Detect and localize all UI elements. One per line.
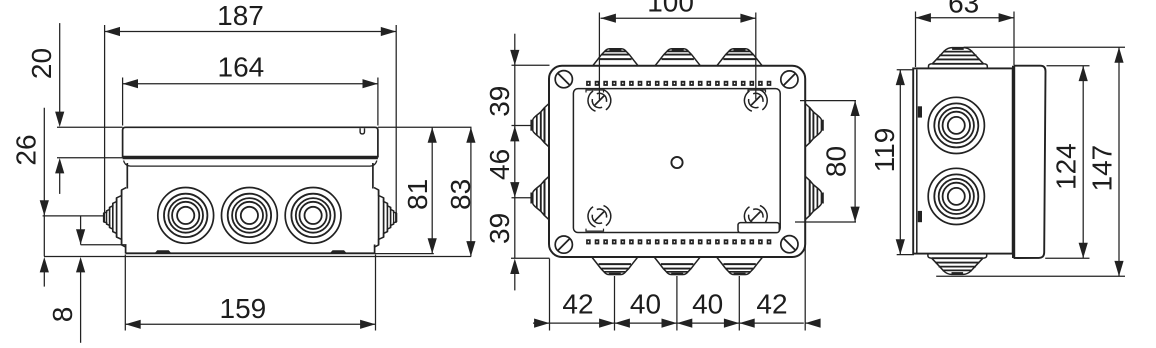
dim chain line	[533, 322, 804, 324]
svg-text:46: 46	[484, 149, 515, 180]
tick at gland bottom	[81, 244, 127, 246]
dim 26 (gland center height)	[11, 108, 103, 287]
dim 100 (lid screw spacing)	[599, 0, 755, 99]
front view: junction box with lid and 3 knockouts	[103, 127, 397, 253]
ext box right	[804, 222, 806, 331]
ext top	[800, 100, 856, 102]
lid screw boss bottom-left	[585, 202, 614, 231]
knockout bump left 2	[533, 176, 549, 219]
ext line to left boss	[598, 13, 600, 100]
lid hinge notch	[360, 128, 364, 134]
shaft below	[514, 274, 516, 291]
cone knockout bottom (side view)	[928, 254, 987, 275]
knockout bump right 1	[805, 104, 821, 147]
side view: box with lid edge-on	[913, 48, 1045, 275]
corner screw top-right	[781, 71, 798, 88]
dim leader 26	[43, 108, 45, 257]
shaft below	[59, 173, 61, 194]
svg-text:63: 63	[948, 0, 979, 19]
body left edge	[126, 163, 128, 189]
ext left	[915, 12, 917, 68]
left foot tab	[156, 251, 171, 253]
svg-text:40: 40	[692, 289, 723, 320]
svg-text:42: 42	[562, 289, 593, 320]
arrow outside-right	[805, 319, 820, 328]
ext line right lid	[377, 78, 379, 126]
dim 83 (height incl feet)	[445, 127, 476, 256]
left cable gland cone	[103, 188, 126, 248]
dim line 187	[105, 31, 397, 33]
latch tab lower	[918, 211, 922, 222]
svg-text:42: 42	[756, 289, 787, 320]
ext box left	[549, 259, 551, 331]
tick box bottom	[511, 257, 550, 259]
dim 8 (gland bottom to base)	[47, 216, 126, 343]
lid screw boss bottom-right	[741, 202, 770, 231]
knockout circle 2 (front)	[222, 188, 278, 244]
svg-text:100: 100	[647, 0, 694, 18]
knockout circle 3 (front)	[285, 188, 341, 244]
inner lid recess rect	[573, 89, 780, 233]
svg-text:40: 40	[630, 289, 661, 320]
lid screw boss top-right	[741, 86, 770, 115]
cone knockout top (side view)	[929, 48, 988, 69]
ext line left (gland tip)	[104, 25, 106, 222]
ext bump2	[676, 276, 678, 331]
ext top cone tip	[964, 46, 1125, 48]
dim 20 (lid height)	[26, 23, 123, 194]
ext bottom cone tip	[936, 275, 1125, 277]
ext line top (lid top)	[378, 126, 472, 128]
label plate bottom-right	[738, 223, 779, 233]
ext line left body	[124, 255, 126, 331]
svg-text:124: 124	[1050, 143, 1081, 190]
knockout circle 1 (side)	[928, 97, 984, 153]
dim leader 20	[59, 23, 61, 112]
knockout bump bottom 2	[654, 257, 700, 275]
ext bottom lid	[1045, 257, 1089, 259]
svg-text:80: 80	[821, 146, 852, 177]
dim line segment 39 top	[514, 34, 516, 126]
lid (front view)	[123, 127, 378, 156]
tick bump2 center	[512, 197, 532, 199]
dim line 63	[916, 17, 1015, 19]
svg-text:83: 83	[445, 179, 476, 210]
top view: box seen from above	[530, 48, 823, 275]
shaft below base line	[80, 272, 82, 343]
dim leader 8	[80, 216, 82, 245]
tick at lid bottom	[57, 157, 123, 159]
knockout bump top 3	[717, 49, 763, 66]
dim 119 (box height, side view)	[869, 70, 914, 255]
corner screw bottom-right	[781, 236, 798, 253]
dim 124 (lid height)	[1045, 66, 1089, 259]
latch tab upper	[918, 106, 922, 117]
dim 187 (overall width)	[105, 0, 397, 222]
svg-text:159: 159	[220, 293, 267, 324]
dim 81 (box height)	[375, 127, 472, 253]
outer box outline (top view)	[549, 66, 805, 257]
ext line to right boss	[755, 13, 757, 100]
body right edge	[372, 163, 374, 189]
tail right	[805, 322, 820, 324]
lid bottom thick edge	[123, 157, 378, 160]
dim line 119	[899, 70, 901, 255]
tick box top	[512, 64, 550, 66]
dim 147 (overall height)	[936, 47, 1125, 276]
vent slots row bottom	[586, 239, 771, 244]
arrow outside-left	[534, 319, 549, 328]
lid wall (thick)	[1012, 66, 1015, 258]
knockout bump top 2	[655, 49, 701, 66]
corner screw top-left	[555, 71, 572, 88]
ext line right (gland tip)	[395, 25, 397, 222]
dim line 81	[431, 127, 433, 253]
body outline (side view)	[913, 68, 1013, 253]
svg-text:20: 20	[26, 48, 57, 79]
right foot tab	[331, 251, 346, 253]
center pilot hole	[671, 157, 682, 168]
svg-text:187: 187	[217, 0, 264, 31]
dim line 164	[123, 83, 378, 85]
clip marks on inner rect edges	[586, 90, 766, 231]
ext bump3	[738, 276, 740, 331]
lid profile (side view)	[1014, 66, 1046, 258]
corner screw bottom-left	[555, 236, 572, 253]
dim 63 (body depth)	[916, 0, 1015, 67]
body bottom edge	[126, 252, 375, 254]
ext line bottom (box bottom)	[375, 253, 434, 255]
dim line 147	[1118, 47, 1120, 276]
right cable gland cone	[374, 188, 397, 248]
knockout bump right 2	[805, 176, 821, 219]
knockout bump top 1	[592, 49, 638, 66]
svg-text:164: 164	[218, 52, 265, 83]
tick top	[897, 69, 914, 71]
tick bump1 center	[512, 125, 532, 127]
lid screw boss top-left	[585, 86, 614, 115]
dim 80 (outer bump span right side)	[795, 101, 860, 222]
dim line segment 39 bottom	[514, 198, 516, 258]
ext bottom	[795, 221, 856, 223]
dim 159 (body width)	[125, 255, 375, 331]
knockout circle 1 (front)	[158, 188, 214, 244]
dim line 83	[470, 127, 472, 256]
dim 164 (lid width)	[123, 52, 378, 126]
svg-text:81: 81	[402, 179, 433, 210]
base line (ground)	[44, 256, 471, 258]
dim chain 39/46/39 (left of top view)	[484, 34, 549, 291]
svg-text:8: 8	[47, 307, 78, 323]
dim line 80	[854, 101, 856, 222]
tick at lid top	[57, 126, 123, 128]
ext line left lid	[122, 78, 124, 126]
knockout bump left 1	[533, 104, 549, 147]
vent slots row top	[586, 81, 771, 86]
svg-text:39: 39	[484, 213, 515, 244]
body rim inner line	[916, 70, 918, 254]
tick bottom	[897, 254, 914, 256]
dim line segment 46	[514, 126, 516, 198]
knockout bump bottom 1	[592, 257, 638, 275]
ext bump1	[614, 276, 616, 331]
svg-text:119: 119	[869, 128, 900, 173]
svg-text:147: 147	[1086, 145, 1117, 192]
svg-text:39: 39	[484, 86, 515, 117]
ext right	[1013, 12, 1015, 66]
dim line 124	[1082, 66, 1084, 259]
svg-text:26: 26	[11, 134, 42, 165]
tick at gland center	[43, 215, 103, 217]
body shoulder line under lid	[124, 161, 377, 167]
ext line right body	[375, 255, 377, 331]
dim chain 42/40/40/42 (below top view)	[533, 222, 821, 331]
shaft below base line	[43, 272, 45, 287]
knockout bump bottom 3	[717, 257, 763, 275]
dim line 100	[601, 17, 756, 19]
knockout circle 2 (side)	[928, 168, 984, 224]
dim line 159	[125, 323, 375, 325]
ext top lid	[1047, 65, 1090, 67]
